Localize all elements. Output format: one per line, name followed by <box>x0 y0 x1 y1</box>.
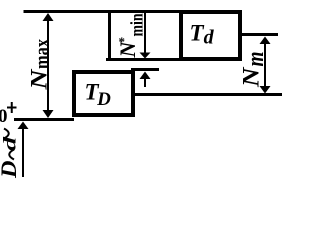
svg-text:min: min <box>127 14 147 37</box>
svg-text:N: N <box>27 68 52 91</box>
svg-text:N: N <box>239 66 264 88</box>
svg-text:*: * <box>119 34 126 49</box>
svg-text:D: D <box>0 160 21 179</box>
svg-text:max: max <box>30 39 54 69</box>
svg-text:0: 0 <box>0 106 8 127</box>
svg-text:m: m <box>243 52 269 67</box>
svg-text:TD: TD <box>85 80 112 111</box>
svg-text:Td: Td <box>190 21 215 49</box>
svg-text:d: d <box>0 135 20 151</box>
